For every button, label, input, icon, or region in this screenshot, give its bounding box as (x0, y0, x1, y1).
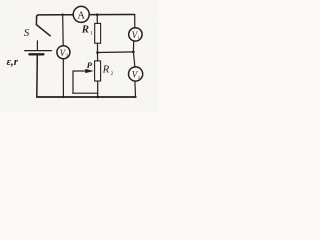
wire V3 branch top drop (62, 15, 65, 46)
svg-text:S: S (24, 27, 30, 39)
svg-text:ε,r: ε,r (7, 56, 19, 68)
wire middle rail (98, 51, 134, 54)
junction node top R1 (96, 13, 99, 16)
wire R2 bottom down (97, 81, 99, 97)
wire V2 bottom to bottom wire (134, 81, 137, 97)
resistor R2 box (rheostat) (95, 61, 101, 81)
wire V3 branch bottom drop (62, 59, 64, 97)
voltmeter V1 (across R1) (129, 28, 142, 41)
svg-text:1: 1 (90, 30, 93, 36)
svg-text:A: A (77, 10, 85, 21)
junction node top V3 (62, 14, 64, 16)
svg-text:P: P (87, 60, 93, 70)
wire slider jog to R2 bottom (73, 92, 98, 94)
wire rheostat slider tail down (72, 71, 74, 93)
battery short plate (29, 53, 43, 55)
svg-text:1: 1 (137, 35, 139, 40)
wire top-right corner down to V1 (134, 15, 136, 28)
wire R1 bottom to rail (97, 43, 99, 52)
rheostat slider arrow P (73, 69, 94, 73)
wire R1 top drop (96, 15, 98, 24)
wire V1 bottom to rail junction (132, 41, 134, 52)
voltmeter V3 (across source) (57, 46, 70, 59)
wire bottom horizontal (37, 96, 136, 98)
junction node bottom V3 (62, 96, 64, 98)
svg-text:2: 2 (111, 71, 114, 77)
svg-text:R: R (102, 64, 110, 76)
junction node rail right (132, 51, 135, 54)
voltmeter V2 (across R2) (129, 67, 143, 81)
junction node bottom R2 (96, 96, 99, 99)
junction node rail left (96, 51, 99, 54)
svg-text:R: R (81, 24, 89, 36)
wire rail down to V2 top (133, 52, 135, 67)
switch S blade (36, 25, 50, 36)
battery long plate (25, 50, 52, 52)
ammeter A (73, 6, 89, 22)
wire battery down left side to bottom (36, 56, 39, 97)
wire switch to battery (36, 41, 38, 50)
resistor R1 box (95, 23, 101, 43)
wire top horizontal (37, 15, 135, 18)
wire top-left corner down to switch stub (35, 17, 37, 25)
wire rail down to R2 top (97, 53, 99, 61)
